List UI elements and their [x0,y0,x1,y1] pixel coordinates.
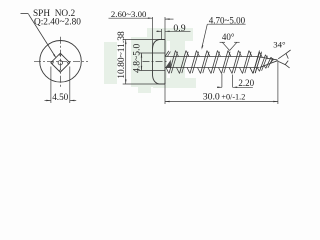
svg-text:2.60~3.00: 2.60~3.00 [111,9,147,19]
thread crest ticks [166,68,169,74]
svg-text:4.8~5.0: 4.8~5.0 [131,44,142,73]
svg-text:Q:2.40~2.80: Q:2.40~2.80 [34,18,81,28]
svg-text:2.20: 2.20 [238,78,254,88]
svg-text:0.9: 0.9 [173,23,185,34]
dim 10.80~11.38 [123,39,165,41]
leader SPH note [21,12,29,14]
thread flanks [169,51,176,74]
svg-text:4.70~5.00: 4.70~5.00 [209,15,246,25]
first thread fill [165,60,171,68]
tapered end threads [253,52,260,73]
dim 4.8~5.0 [139,52,166,54]
dim 2.60~3.00 [152,17,154,49]
highlight patches [104,42,117,84]
recess center circle [58,61,62,65]
phillips recess diamond [51,53,70,72]
svg-text:4.50: 4.50 [52,92,68,102]
svg-text:40°: 40° [222,32,235,42]
screw head profile [153,40,166,85]
dim 2.20 [221,74,223,88]
dim 40 deg [222,42,229,50]
screw tip cone [257,57,278,68]
screw centerline [143,60,168,62]
dim 4.70~5.00 leader [207,23,245,25]
dim 30.0 [164,83,166,105]
head outline circle [40,41,82,83]
thread root lines [165,56,257,58]
svg-text:30.0+0/-1.2: 30.0+0/-1.2 [203,92,246,103]
recess corner notches [59,54,62,56]
svg-text:10.80~11.38: 10.80~11.38 [117,31,127,79]
dim 4.50 line + arrows [45,99,51,101]
svg-text:34°: 34° [273,39,286,49]
centerline horizontal [34,60,88,62]
dim 4.50 ext lines [50,67,52,104]
angle 34 deg lines [278,53,286,58]
centerline vertical [60,37,62,87]
dim 0.9 [161,29,163,40]
